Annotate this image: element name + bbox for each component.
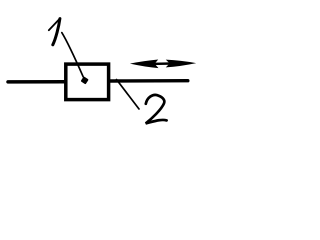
component box (body 2) — [66, 64, 109, 100]
leader line for label 1 — [62, 33, 83, 77]
label 2 — [146, 95, 167, 123]
double-headed arrow (motion arrow) — [130, 60, 196, 69]
wire left segment — [8, 80, 65, 84]
wire right segment — [110, 79, 188, 83]
node dot (element 1) inside box — [81, 76, 89, 84]
label 1 — [49, 19, 60, 45]
leader line for label 2 — [117, 80, 140, 110]
